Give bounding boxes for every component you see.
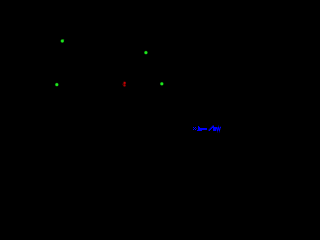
green particle D	[160, 82, 164, 86]
green particle B	[144, 51, 148, 55]
green particle C	[55, 83, 59, 87]
glyph x	[193, 127, 194, 128]
red particle cluster	[123, 81, 127, 85]
digit bar	[198, 126, 199, 131]
period	[196, 128, 197, 129]
green particle A	[60, 39, 64, 43]
mm band	[199, 127, 200, 131]
slash	[209, 130, 211, 131]
W zigzag	[216, 127, 220, 131]
caption bitmap (blue)	[193, 126, 221, 131]
block	[213, 127, 216, 131]
